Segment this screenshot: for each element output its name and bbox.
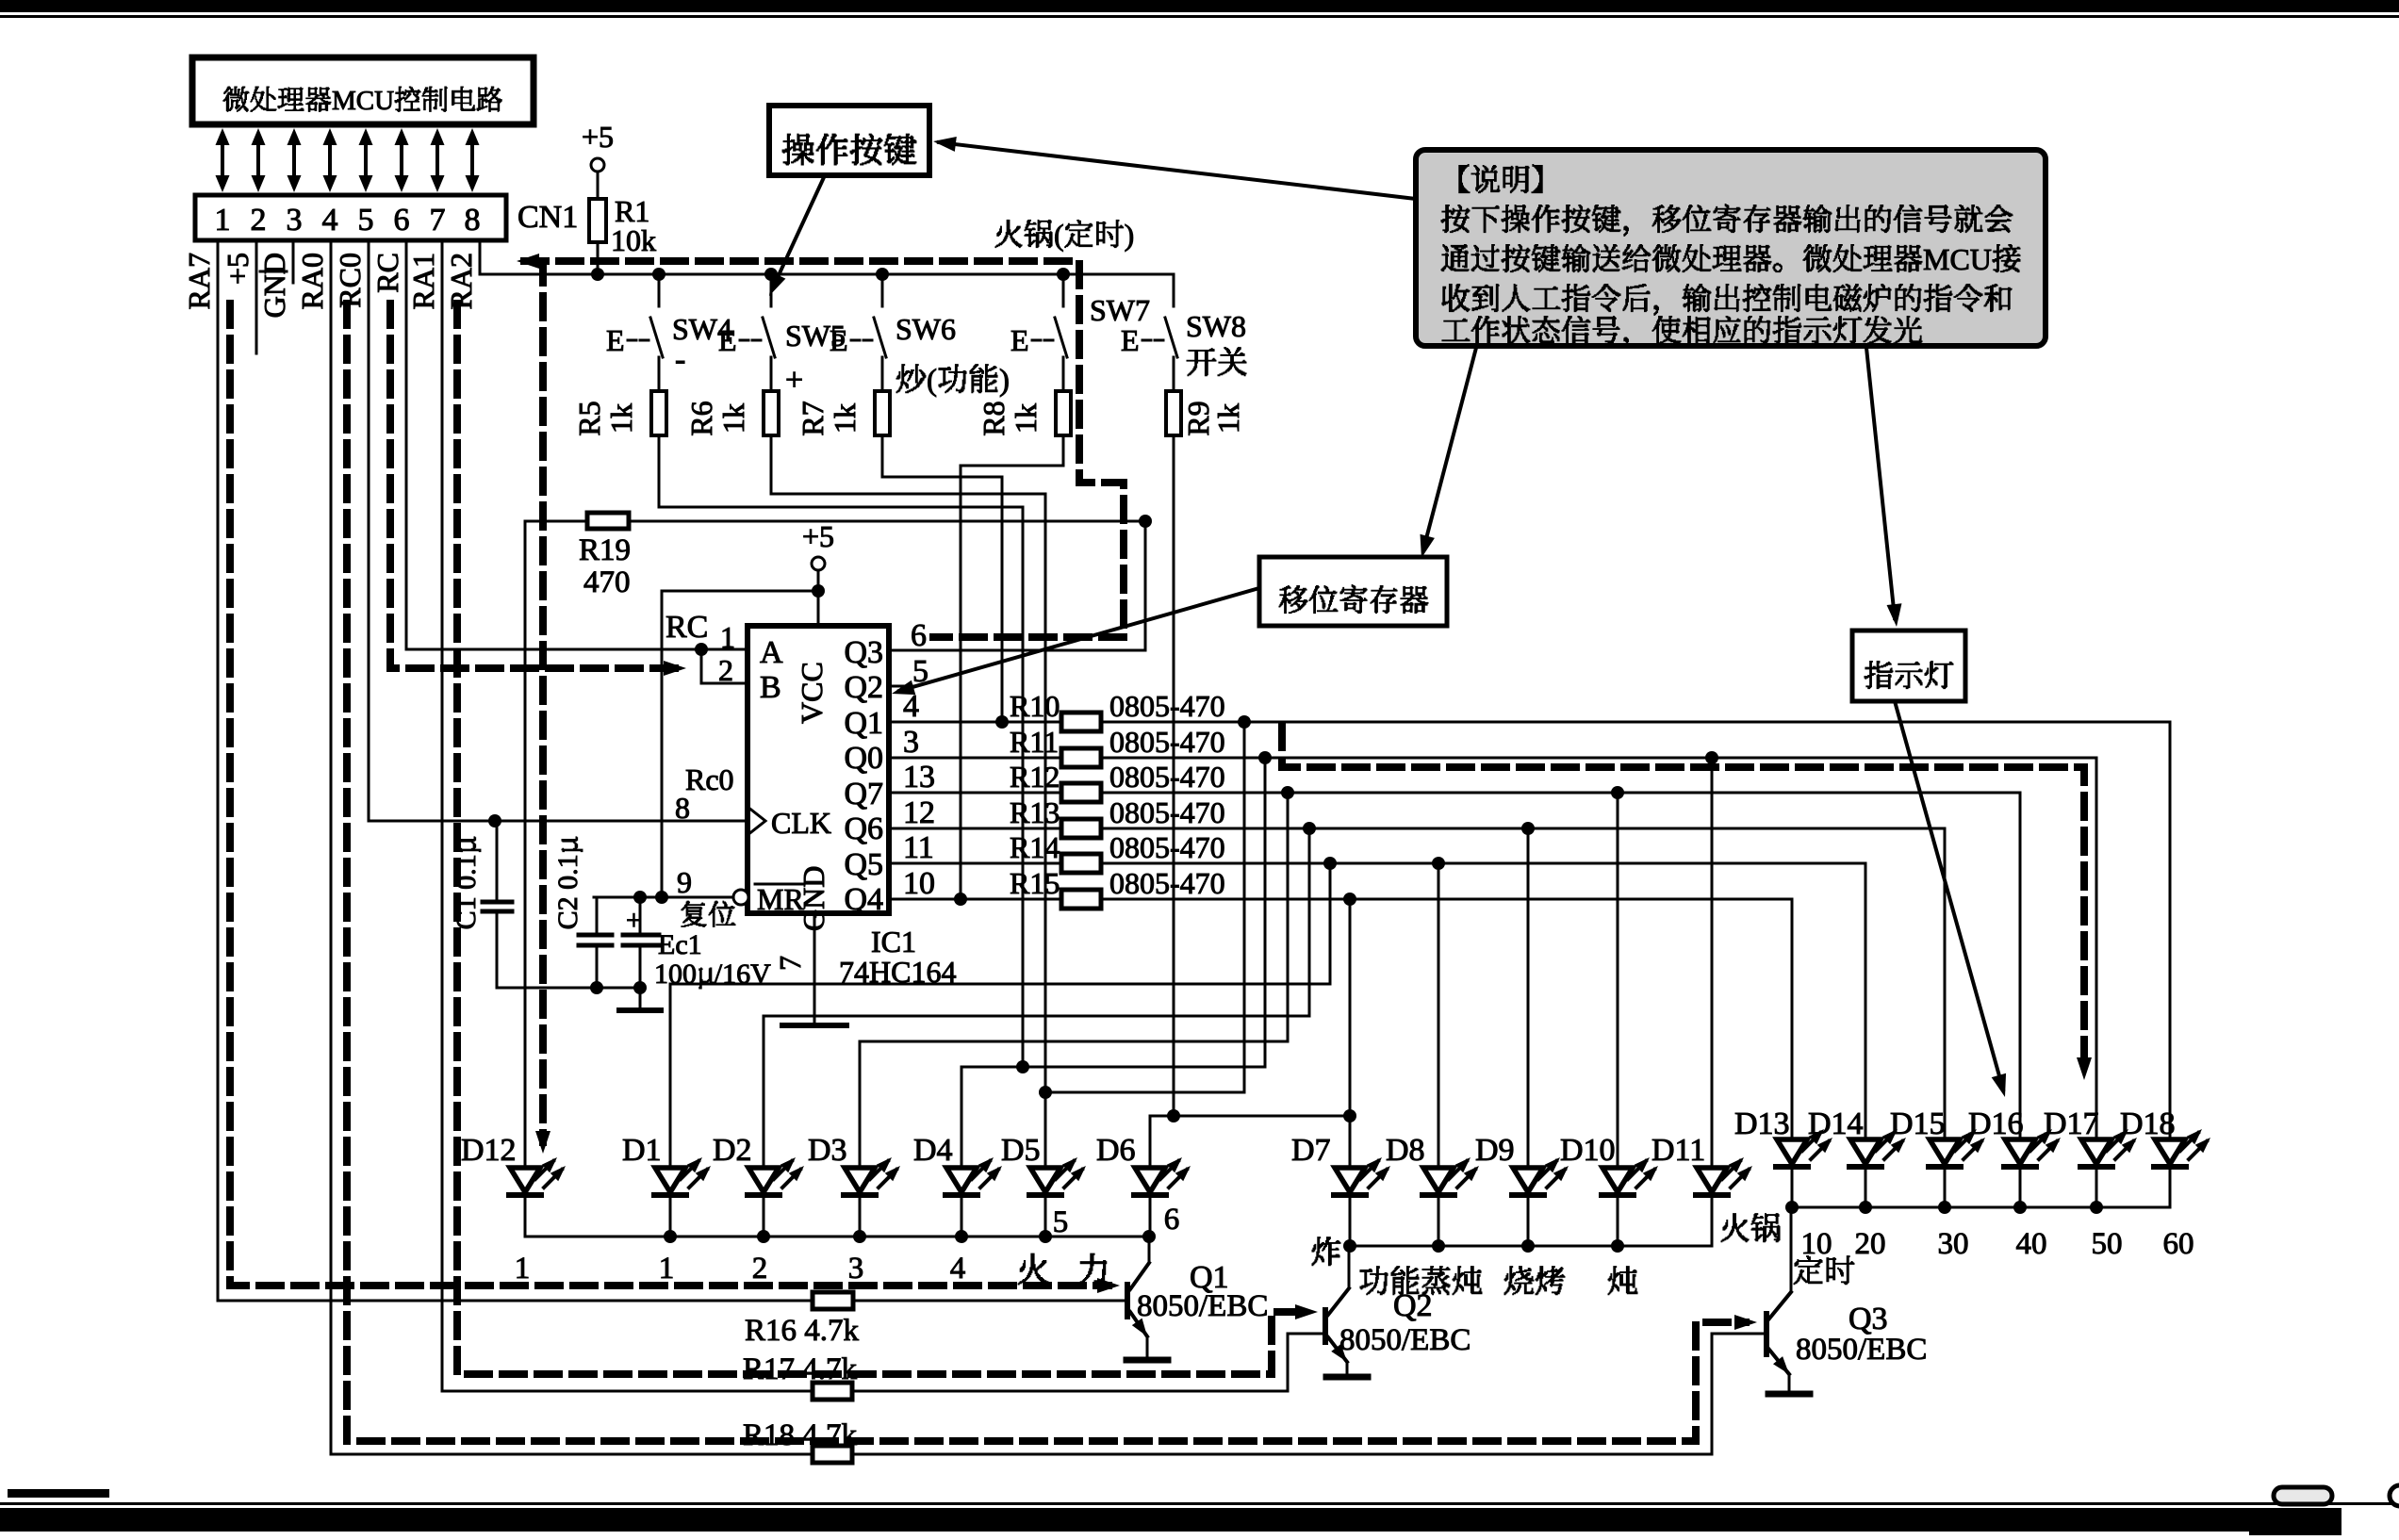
svg-text:R9: R9 xyxy=(1181,401,1215,435)
svg-text:MCU: MCU xyxy=(332,86,394,116)
svg-text:R8: R8 xyxy=(977,401,1011,435)
svg-text:50: 50 xyxy=(2092,1227,2123,1261)
svg-text:Rc0: Rc0 xyxy=(685,762,734,796)
svg-text:+: + xyxy=(626,905,642,936)
svg-text:IC1: IC1 xyxy=(871,925,916,958)
svg-text:0805-470: 0805-470 xyxy=(1109,689,1225,723)
svg-text:8050/EBC: 8050/EBC xyxy=(1137,1289,1268,1323)
svg-text:Q3: Q3 xyxy=(1849,1302,1888,1336)
svg-text:Q2: Q2 xyxy=(844,670,883,705)
svg-text:1k: 1k xyxy=(828,403,862,434)
svg-text:R7: R7 xyxy=(796,401,830,435)
svg-text:60: 60 xyxy=(2163,1227,2194,1261)
svg-text:E: E xyxy=(1121,323,1140,357)
svg-text:RA1: RA1 xyxy=(406,253,440,309)
svg-text:0805-470: 0805-470 xyxy=(1109,830,1225,864)
svg-text:Q3: Q3 xyxy=(844,635,883,670)
svg-text:RA7: RA7 xyxy=(182,253,216,309)
svg-text:2: 2 xyxy=(752,1252,768,1286)
svg-text:SW6: SW6 xyxy=(896,312,956,346)
svg-text:+5: +5 xyxy=(582,120,614,154)
svg-text:+5: +5 xyxy=(802,519,834,553)
svg-text:0805-470: 0805-470 xyxy=(1109,795,1225,829)
svg-text:GND: GND xyxy=(257,253,291,318)
svg-text:1: 1 xyxy=(659,1252,675,1286)
svg-text:6: 6 xyxy=(394,203,410,238)
svg-text:CLK: CLK xyxy=(771,806,831,840)
svg-text:8050/EBC: 8050/EBC xyxy=(1796,1333,1927,1367)
svg-text:0805-470: 0805-470 xyxy=(1109,760,1225,794)
svg-text:D13: D13 xyxy=(1734,1106,1790,1141)
svg-text:1k: 1k xyxy=(1009,403,1043,434)
svg-text:11: 11 xyxy=(903,830,934,865)
svg-text:CN1: CN1 xyxy=(518,200,578,235)
svg-text:12: 12 xyxy=(903,795,935,830)
svg-text:1k: 1k xyxy=(1211,403,1245,434)
svg-text:E: E xyxy=(830,323,848,357)
svg-text:0805-470: 0805-470 xyxy=(1109,866,1225,900)
svg-text:R18 4.7k: R18 4.7k xyxy=(743,1418,858,1452)
svg-text:D2: D2 xyxy=(713,1133,752,1168)
svg-text:9: 9 xyxy=(677,865,692,899)
svg-text:D3: D3 xyxy=(808,1133,847,1168)
svg-text:D11: D11 xyxy=(1651,1133,1705,1168)
svg-text:D12: D12 xyxy=(461,1133,517,1168)
svg-text:D17: D17 xyxy=(2044,1106,2099,1141)
svg-text:R10: R10 xyxy=(1010,689,1060,723)
svg-text:Q1: Q1 xyxy=(844,706,883,741)
svg-text:R17 4.7k: R17 4.7k xyxy=(743,1352,858,1386)
svg-text:R15: R15 xyxy=(1010,866,1060,900)
svg-text:R13: R13 xyxy=(1010,795,1060,829)
svg-text:RC: RC xyxy=(665,610,708,645)
svg-text:5: 5 xyxy=(1053,1205,1069,1239)
svg-text:10k: 10k xyxy=(611,223,656,257)
svg-text:D10: D10 xyxy=(1560,1133,1616,1168)
svg-text:3: 3 xyxy=(287,203,303,238)
svg-text:C2 0.1: C2 0.1 xyxy=(552,854,583,929)
svg-text:D7: D7 xyxy=(1291,1133,1331,1168)
svg-text:7: 7 xyxy=(430,203,446,238)
svg-text:3: 3 xyxy=(903,725,919,760)
svg-text:D1: D1 xyxy=(622,1133,662,1168)
svg-text:1k: 1k xyxy=(716,403,750,434)
svg-text:6: 6 xyxy=(1164,1203,1180,1237)
svg-text:VCC: VCC xyxy=(795,662,829,724)
svg-text:4: 4 xyxy=(322,203,338,238)
svg-text:RC0: RC0 xyxy=(333,253,367,308)
svg-text:D18: D18 xyxy=(2120,1106,2176,1141)
svg-text:4: 4 xyxy=(950,1252,966,1286)
svg-text:D4: D4 xyxy=(913,1133,953,1168)
svg-text:Ec1: Ec1 xyxy=(658,929,702,960)
svg-text:R16 4.7k: R16 4.7k xyxy=(745,1314,860,1348)
svg-text:R14: R14 xyxy=(1010,830,1060,864)
svg-text:E: E xyxy=(718,323,737,357)
svg-text:A: A xyxy=(760,635,783,670)
svg-text:R12: R12 xyxy=(1010,760,1060,794)
svg-text:Q0: Q0 xyxy=(844,741,883,776)
svg-text:1k: 1k xyxy=(604,403,638,434)
svg-text:7: 7 xyxy=(773,956,807,971)
svg-text:Q2: Q2 xyxy=(1393,1288,1433,1323)
svg-text:1: 1 xyxy=(215,203,231,238)
svg-text:D6: D6 xyxy=(1096,1133,1136,1168)
svg-text:R19: R19 xyxy=(579,533,631,567)
svg-text:Q5: Q5 xyxy=(844,847,883,882)
svg-text:RC: RC xyxy=(370,253,404,293)
svg-text:Q4: Q4 xyxy=(844,882,883,917)
svg-text:+: + xyxy=(785,363,803,398)
svg-text:D14: D14 xyxy=(1808,1106,1864,1141)
svg-text:E: E xyxy=(1011,323,1029,357)
svg-text:10: 10 xyxy=(1801,1227,1832,1261)
svg-text:40: 40 xyxy=(2016,1227,2047,1261)
svg-text:8050/EBC: 8050/EBC xyxy=(1339,1323,1471,1357)
svg-text:20: 20 xyxy=(1855,1227,1886,1261)
svg-text:2: 2 xyxy=(718,653,733,687)
svg-text:RA0: RA0 xyxy=(295,253,329,309)
svg-text:SW8: SW8 xyxy=(1186,309,1246,343)
svg-text:6: 6 xyxy=(911,618,927,653)
svg-text:8: 8 xyxy=(465,203,481,238)
svg-text:MCU: MCU xyxy=(1923,242,1992,276)
svg-text:): ) xyxy=(1125,218,1135,252)
svg-text:R6: R6 xyxy=(684,401,718,435)
svg-text:3: 3 xyxy=(848,1252,864,1286)
svg-text:MR: MR xyxy=(757,882,804,916)
svg-text:470: 470 xyxy=(583,565,631,599)
svg-text:1: 1 xyxy=(515,1252,531,1286)
svg-text:R5: R5 xyxy=(572,401,606,435)
svg-text:1: 1 xyxy=(720,620,735,654)
svg-text:Q7: Q7 xyxy=(844,777,883,811)
svg-text:30: 30 xyxy=(1938,1227,1969,1261)
svg-text:13: 13 xyxy=(903,760,935,795)
svg-text:2: 2 xyxy=(251,203,267,238)
svg-text:10: 10 xyxy=(903,866,935,901)
svg-text:B: B xyxy=(760,670,781,705)
svg-text:D16: D16 xyxy=(1968,1106,2024,1141)
svg-text:+5: +5 xyxy=(221,253,255,285)
svg-text:E: E xyxy=(606,323,625,357)
svg-text:0805-470: 0805-470 xyxy=(1109,725,1225,759)
svg-text:(: ( xyxy=(1054,218,1064,252)
svg-text:5: 5 xyxy=(358,203,374,238)
svg-text:D8: D8 xyxy=(1386,1133,1425,1168)
svg-text:SW7: SW7 xyxy=(1090,293,1150,327)
svg-text:-: - xyxy=(675,342,685,377)
svg-text:(: ( xyxy=(927,364,937,398)
svg-text:): ) xyxy=(999,364,1010,398)
svg-text:D15: D15 xyxy=(1890,1106,1946,1141)
svg-text:Q6: Q6 xyxy=(844,811,883,846)
svg-text:D9: D9 xyxy=(1475,1133,1515,1168)
svg-text:R11: R11 xyxy=(1010,725,1059,759)
svg-text:D5: D5 xyxy=(1001,1133,1041,1168)
